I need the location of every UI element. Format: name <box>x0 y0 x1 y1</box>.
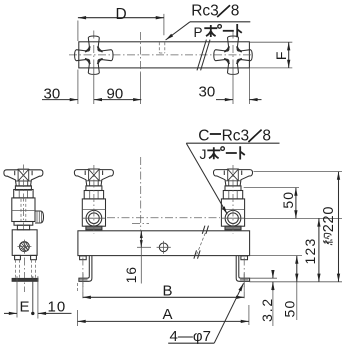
svg-text:8: 8 <box>262 127 271 144</box>
svg-text:A: A <box>163 306 173 323</box>
dimension E <box>4 312 17 314</box>
left valve <box>74 165 113 234</box>
hidden screw lines <box>15 260 35 278</box>
hidden stem line <box>21 199 26 221</box>
dimension 30 (right) <box>233 69 249 105</box>
svg-text:B: B <box>163 282 173 299</box>
left foot bracket <box>79 256 92 281</box>
neck <box>17 225 29 230</box>
dimension 50 (lower) <box>296 256 298 282</box>
svg-text:D: D <box>116 6 127 23</box>
manifold bar (plan view) <box>79 42 250 68</box>
svg-text:E: E <box>20 299 30 316</box>
katakana to <box>240 146 245 159</box>
right handwheel (cross handle, plan) <box>214 36 252 74</box>
svg-text:4—φ7: 4—φ7 <box>170 328 211 345</box>
svg-text:30: 30 <box>199 83 216 100</box>
svg-text:J: J <box>200 146 207 162</box>
packing knob (knurled, right side) <box>35 211 44 223</box>
hidden line below left block edge <box>76 283 78 293</box>
bracket screws (end view) <box>15 255 21 259</box>
dimension F <box>249 42 292 68</box>
dimension approx 220 <box>338 172 340 282</box>
kanji approx (約) <box>323 233 333 244</box>
side valve centerline <box>22 165 24 234</box>
svg-text:123: 123 <box>302 238 318 265</box>
svg-text:90: 90 <box>107 86 124 103</box>
dimension 90 <box>139 73 141 104</box>
underline C-Rc3/8 <box>186 142 279 144</box>
bar centerline <box>69 54 254 56</box>
katakana long dash <box>226 152 237 154</box>
underline Rc3/8 <box>190 21 250 23</box>
P port (threaded, hatched) <box>17 240 31 254</box>
svg-text:Rc3: Rc3 <box>191 2 219 19</box>
katakana po <box>204 25 217 37</box>
bonnet <box>14 190 33 198</box>
svg-text:50: 50 <box>280 191 296 209</box>
svg-text:16: 16 <box>123 266 139 283</box>
P port mark on front face <box>157 241 171 254</box>
center port horizontal dash-dot <box>132 223 149 225</box>
katakana long dash <box>223 30 234 32</box>
dimension D <box>78 14 164 41</box>
svg-text:8: 8 <box>231 2 240 19</box>
right foot hole centerline <box>243 258 245 293</box>
leader to P port <box>166 22 190 40</box>
underline 4-phi7 <box>168 342 214 344</box>
left foot hole centerline <box>82 258 84 293</box>
bracket centerline <box>23 258 25 293</box>
manifold block (front) <box>78 231 250 256</box>
dimension E extension lines <box>17 276 38 318</box>
svg-text:10: 10 <box>48 299 67 316</box>
katakana to <box>237 24 242 37</box>
dimension 30 (left) <box>78 69 94 105</box>
svg-text:220: 220 <box>321 206 337 233</box>
right handwheel centerline <box>232 31 234 71</box>
svg-text:F: F <box>273 52 289 61</box>
svg-text:3.2: 3.2 <box>259 297 275 322</box>
bracket foot plate (end view) <box>12 278 38 281</box>
J port axis centerline <box>107 217 220 219</box>
break mark (front view) <box>194 226 209 259</box>
dimension 3.2 <box>272 270 274 278</box>
dimension B <box>83 296 245 298</box>
side valve assembly <box>12 165 44 234</box>
dimension 50 (upper) <box>295 188 297 219</box>
dimension 123 <box>318 218 320 281</box>
P port hidden hole <box>159 42 165 53</box>
right valve <box>213 165 252 234</box>
left handwheel (cross handle, plan) <box>75 36 113 74</box>
manifold block (end view) <box>12 230 37 256</box>
right foot bracket <box>236 256 249 281</box>
svg-text:P: P <box>194 25 203 40</box>
leader to foot hole <box>214 283 243 343</box>
svg-text:30: 30 <box>44 86 61 103</box>
break mark (top view) <box>197 40 210 71</box>
svg-text:Rc3: Rc3 <box>222 127 250 144</box>
leader to J port <box>186 143 227 214</box>
center port axis (vertical dash-dot) <box>140 157 142 231</box>
dimension 16 <box>137 246 151 248</box>
port centerline (vertical dash-dot) <box>139 32 141 73</box>
svg-text:C: C <box>198 127 209 144</box>
left bracket screw head <box>80 256 87 260</box>
svg-text:50: 50 <box>282 300 298 318</box>
side valve T-handle <box>4 169 43 186</box>
dimension A <box>78 305 249 326</box>
right bracket screw head <box>241 256 248 260</box>
left handwheel centerline <box>93 31 95 71</box>
bottom flange <box>14 222 33 226</box>
katakana po <box>207 147 220 159</box>
collar <box>15 186 31 190</box>
right side extension lines <box>244 172 342 282</box>
dimension 10 <box>38 312 49 314</box>
body <box>12 198 35 222</box>
